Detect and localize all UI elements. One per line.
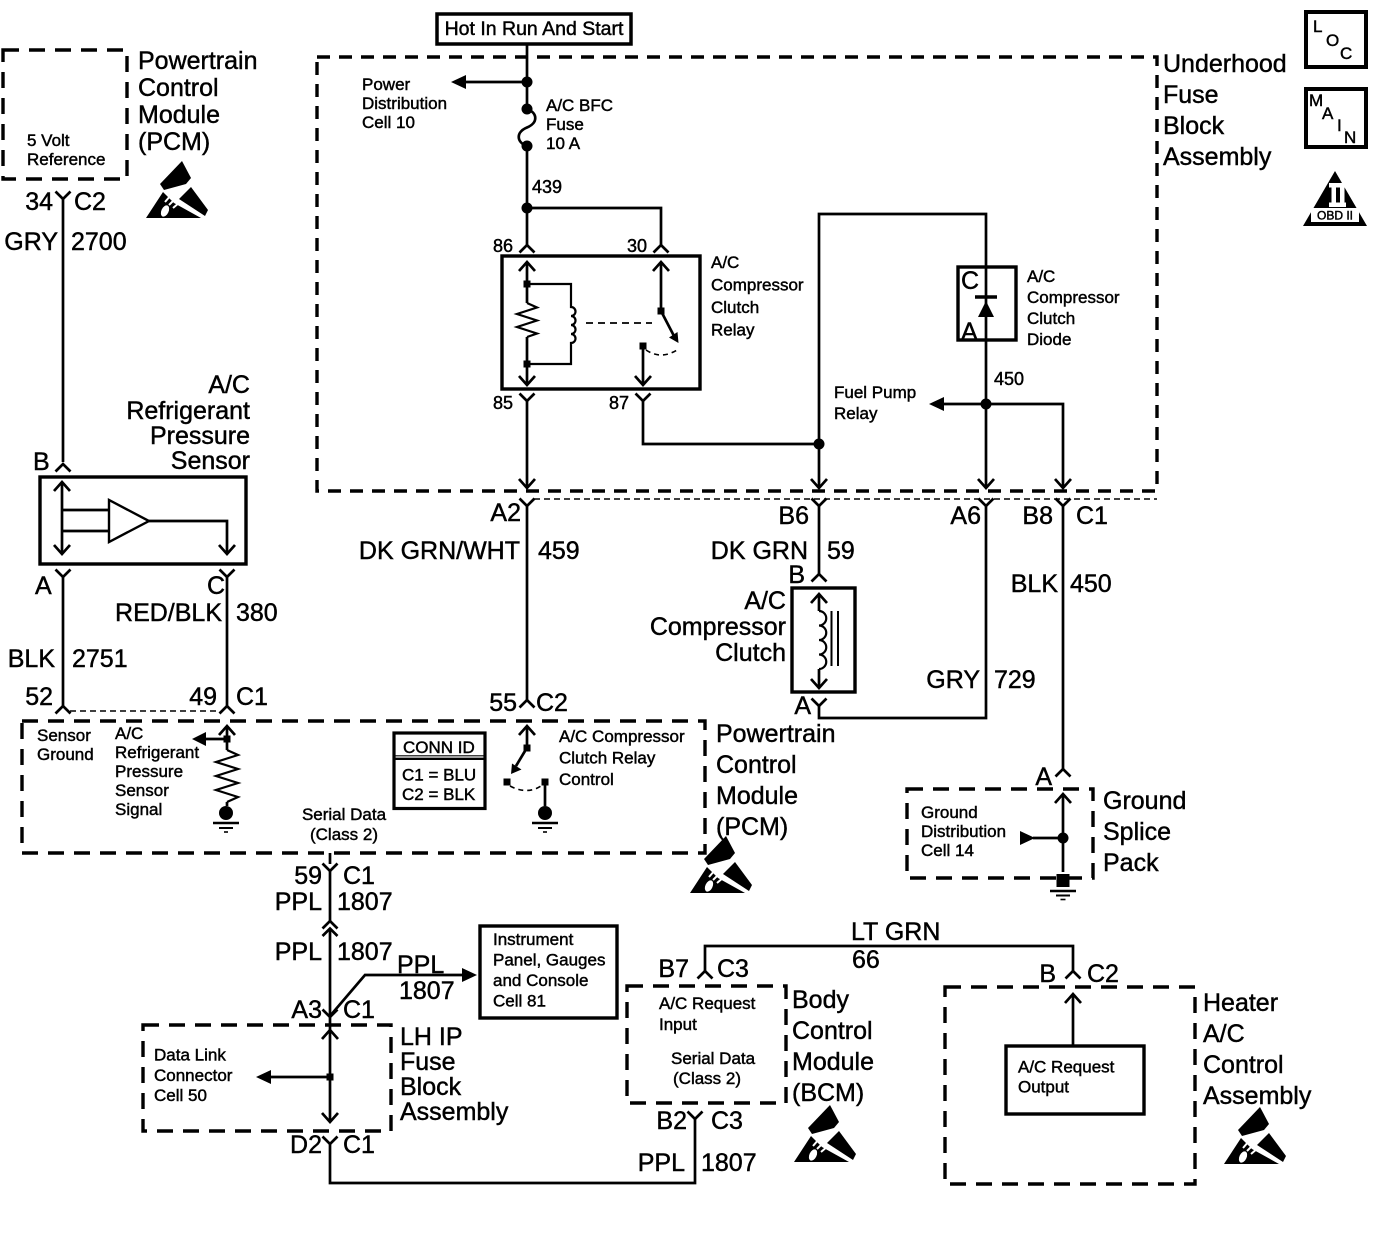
svg-text:Control: Control xyxy=(559,770,614,789)
wire arrow to Data Link Connector Cell 50 xyxy=(256,1070,330,1084)
svg-text:Compressor: Compressor xyxy=(650,613,786,641)
connector A3 C1 xyxy=(323,1010,338,1018)
svg-text:B2: B2 xyxy=(656,1107,687,1135)
svg-text:A/C: A/C xyxy=(1027,267,1055,286)
A/C Request Output box xyxy=(1006,1046,1144,1114)
svg-text:PPL: PPL xyxy=(638,1149,685,1177)
svg-text:Ground: Ground xyxy=(921,803,978,822)
svg-text:59: 59 xyxy=(827,537,855,565)
node splice junction xyxy=(1058,833,1069,844)
wire arrow to Fuel Pump Relay xyxy=(929,397,1063,488)
svg-text:A6: A6 xyxy=(950,502,981,530)
svg-text:729: 729 xyxy=(994,666,1036,694)
svg-text:59: 59 xyxy=(294,862,322,890)
wire 439 xyxy=(526,146,529,245)
relay K1 A/C compressor clutch relay box xyxy=(502,256,700,389)
PCM signal input arrow xyxy=(192,726,235,750)
svg-text:PPL: PPL xyxy=(397,951,444,979)
arrow at B8 exit xyxy=(1055,479,1071,488)
svg-text:Refrigerant: Refrigerant xyxy=(126,397,250,425)
svg-text:A/C Compressor: A/C Compressor xyxy=(559,727,685,746)
label Heater A/C Control Assembly xyxy=(1203,989,1312,1110)
svg-text:Powertrain: Powertrain xyxy=(138,47,258,75)
connector C1 thin dashed line under fuse block xyxy=(534,498,1157,500)
node fuel pump tap xyxy=(981,399,992,410)
svg-text:C1: C1 xyxy=(343,1131,375,1159)
connector B C2 heater xyxy=(1066,971,1081,979)
wire PPL 1807 upper xyxy=(329,871,332,921)
svg-text:B: B xyxy=(33,448,50,476)
label A/C BFC Fuse 10 A xyxy=(546,96,613,153)
label Powertrain Control Module (PCM) top xyxy=(138,47,258,156)
svg-text:(Class 2): (Class 2) xyxy=(310,825,378,844)
svg-text:Assembly: Assembly xyxy=(1163,143,1272,171)
svg-text:Fuse: Fuse xyxy=(400,1048,456,1076)
pin 30 connector xyxy=(654,245,669,253)
svg-text:Serial Data: Serial Data xyxy=(302,805,387,824)
svg-text:(Class 2): (Class 2) xyxy=(673,1069,741,1088)
pin 86 connector xyxy=(520,245,535,253)
node 87/B6 junction xyxy=(814,439,825,450)
clutch coil with arrows xyxy=(811,594,827,688)
label Ground Distribution Cell 14 xyxy=(921,803,1006,860)
svg-text:B: B xyxy=(1039,960,1056,988)
svg-text:A/C: A/C xyxy=(208,371,250,399)
svg-text:450: 450 xyxy=(1070,570,1112,598)
fuse A/C BFC 10A xyxy=(519,104,536,152)
svg-text:Ground: Ground xyxy=(37,745,94,764)
relay junction squares xyxy=(524,281,531,368)
svg-text:Control: Control xyxy=(1203,1051,1284,1079)
clutch core lines xyxy=(832,611,839,666)
wire LT GRN 66 xyxy=(705,946,1073,971)
sensor supply line with arrows xyxy=(54,482,109,554)
connector clutch pin A xyxy=(812,699,827,707)
svg-text:Clutch Relay: Clutch Relay xyxy=(559,749,656,768)
svg-text:C2 = BLK: C2 = BLK xyxy=(402,785,476,804)
svg-text:Assembly: Assembly xyxy=(400,1098,509,1126)
svg-text:RED/BLK: RED/BLK xyxy=(115,599,222,627)
svg-text:Heater: Heater xyxy=(1203,989,1278,1017)
svg-text:Cell 50: Cell 50 xyxy=(154,1086,207,1105)
label A/C Refrigerant Pressure Sensor xyxy=(126,371,250,475)
connector sensor pin C xyxy=(220,570,235,578)
LH IP Fuse Block Assembly dashed box xyxy=(143,1025,391,1131)
ESD symbol PCM top xyxy=(146,161,208,218)
relay switch arm xyxy=(661,311,679,343)
svg-text:Serial Data: Serial Data xyxy=(671,1049,756,1068)
svg-text:D2: D2 xyxy=(290,1131,322,1159)
svg-text:Module: Module xyxy=(792,1048,874,1076)
svg-text:1807: 1807 xyxy=(701,1149,757,1177)
svg-text:459: 459 xyxy=(538,537,580,565)
svg-text:C1 = BLU: C1 = BLU xyxy=(402,766,476,785)
LOC legend box xyxy=(1306,12,1366,67)
PCM clutch relay control driver switch xyxy=(504,726,549,806)
svg-text:Block: Block xyxy=(1163,112,1225,140)
wire PPL 1807 lower xyxy=(329,929,332,1018)
svg-text:Refrigerant: Refrigerant xyxy=(115,743,199,762)
svg-text:Clutch: Clutch xyxy=(1027,309,1075,328)
label A/C Compressor Clutch xyxy=(650,587,786,667)
ESD symbol BCM xyxy=(794,1105,856,1162)
svg-text:A: A xyxy=(1322,104,1334,123)
connector C1 thin dashed link xyxy=(70,710,219,712)
svg-text:1807: 1807 xyxy=(337,888,393,916)
svg-text:1807: 1807 xyxy=(399,977,455,1005)
svg-text:Connector: Connector xyxy=(154,1066,233,1085)
svg-text:A/C: A/C xyxy=(711,253,739,272)
svg-text:Relay: Relay xyxy=(711,321,755,340)
svg-text:10 A: 10 A xyxy=(546,134,581,153)
svg-text:Instrument: Instrument xyxy=(493,930,574,949)
svg-text:Cell 81: Cell 81 xyxy=(493,992,546,1011)
svg-text:49: 49 xyxy=(189,683,217,711)
svg-text:Body: Body xyxy=(792,986,849,1014)
connector splice pin A xyxy=(1056,769,1071,777)
connector B7 C3 xyxy=(698,971,713,979)
relay internal resistor xyxy=(517,303,537,337)
ground splice pack ground symbol xyxy=(1050,874,1076,900)
svg-text:Sensor: Sensor xyxy=(115,781,169,800)
svg-text:O: O xyxy=(1326,31,1339,50)
label A/C Request Input xyxy=(659,994,756,1034)
wire RED/BLK 380 xyxy=(226,577,229,706)
svg-text:A: A xyxy=(1035,763,1052,791)
svg-text:Module: Module xyxy=(716,782,798,810)
svg-text:Pack: Pack xyxy=(1103,849,1159,877)
svg-text:52: 52 xyxy=(25,683,53,711)
diode D1 A/C compressor clutch diode xyxy=(958,267,1016,346)
svg-text:C2: C2 xyxy=(74,188,106,216)
svg-text:Ground: Ground xyxy=(1103,787,1186,815)
svg-text:Diode: Diode xyxy=(1027,330,1071,349)
wire arrow from Ground Distribution Cell 14 xyxy=(1020,831,1063,845)
wire BLK 450 to ground splice xyxy=(1062,506,1065,769)
connector pin 59 C1 xyxy=(323,853,338,871)
svg-text:Fuse: Fuse xyxy=(1163,81,1219,109)
splice internal wire xyxy=(1055,794,1071,872)
Powertrain Control Module dashed box bottom xyxy=(22,721,705,853)
svg-text:A: A xyxy=(35,572,52,600)
wire arrow to Power Distribution Cell 10 xyxy=(451,75,527,89)
svg-text:Data Link: Data Link xyxy=(154,1046,226,1065)
connector B8 xyxy=(1056,499,1071,507)
svg-text:87: 87 xyxy=(609,393,629,413)
svg-text:Sensor: Sensor xyxy=(37,726,91,745)
svg-text:C1: C1 xyxy=(343,862,375,890)
svg-text:Compressor: Compressor xyxy=(1027,288,1120,307)
svg-text:OBD II: OBD II xyxy=(1317,209,1353,223)
svg-text:C3: C3 xyxy=(717,955,749,983)
svg-text:CONN ID: CONN ID xyxy=(403,738,475,757)
svg-text:(BCM): (BCM) xyxy=(792,1079,864,1107)
svg-text:C1: C1 xyxy=(343,996,375,1024)
svg-text:PPL: PPL xyxy=(275,888,322,916)
svg-text:N: N xyxy=(1344,128,1356,147)
wire from Hot In Run And Start down xyxy=(526,45,529,109)
svg-text:and Console: and Console xyxy=(493,971,588,990)
svg-text:B6: B6 xyxy=(778,502,809,530)
arrow at A6 exit xyxy=(978,479,994,488)
wire PPL 1807 bottom run xyxy=(330,1119,695,1183)
sensor B1 pressure sensor box xyxy=(40,477,246,564)
sensor op-amp triangle xyxy=(109,500,149,542)
svg-text:5 Volt: 5 Volt xyxy=(27,131,70,150)
svg-text:Relay: Relay xyxy=(834,404,878,423)
label Power Distribution Cell 10 xyxy=(362,75,447,132)
connector pin 55 xyxy=(520,700,535,708)
svg-text:Panel, Gauges: Panel, Gauges xyxy=(493,951,605,970)
MAIN legend box xyxy=(1306,89,1366,147)
svg-text:B8: B8 xyxy=(1022,502,1053,530)
svg-text:Distribution: Distribution xyxy=(921,822,1006,841)
connector A2 xyxy=(520,499,535,507)
label Body Control Module (BCM) xyxy=(792,986,874,1107)
Body Control Module dashed box xyxy=(627,986,786,1103)
wire DK GRN 59 to clutch xyxy=(818,506,821,574)
Underhood Fuse Block Assembly dashed box xyxy=(317,57,1157,491)
connector clutch pin B xyxy=(812,574,827,582)
svg-text:B: B xyxy=(788,561,805,589)
ESD symbol heater xyxy=(1224,1107,1286,1164)
svg-text:A/C: A/C xyxy=(115,724,143,743)
svg-text:Reference: Reference xyxy=(27,150,105,169)
relay coil-side pin line with arrows xyxy=(519,262,535,385)
svg-text:C: C xyxy=(1340,44,1352,63)
wire GRY 2700 xyxy=(62,199,65,462)
svg-text:(PCM): (PCM) xyxy=(138,128,210,156)
wire BLK 2751 xyxy=(62,577,65,706)
wire 87 to B6 junction xyxy=(643,401,819,444)
svg-text:C2: C2 xyxy=(536,689,568,717)
svg-text:Control: Control xyxy=(716,751,797,779)
svg-text:Output: Output xyxy=(1018,1078,1069,1097)
svg-text:Fuse: Fuse xyxy=(546,115,584,134)
svg-text:55: 55 xyxy=(489,689,517,717)
label Powertrain Control Module (PCM) right xyxy=(716,720,836,841)
OBD II symbol xyxy=(1303,171,1367,226)
label Data Link Connector Cell 50 xyxy=(154,1046,233,1106)
heater internal wire with arrow xyxy=(1065,994,1081,1046)
wire GRY 729 from A6 to clutch A xyxy=(819,506,986,718)
svg-text:C1: C1 xyxy=(1076,502,1108,530)
relay contact 87 xyxy=(635,343,677,386)
svg-text:A2: A2 xyxy=(490,499,521,527)
label Serial Data (Class 2) BCM xyxy=(671,1049,756,1088)
svg-text:2751: 2751 xyxy=(72,645,128,673)
label A/C Compressor Clutch Relay xyxy=(711,253,804,340)
svg-text:Block: Block xyxy=(400,1073,462,1101)
pin 85 connector xyxy=(520,394,535,402)
svg-text:A3: A3 xyxy=(291,996,322,1024)
label Sensor Ground xyxy=(37,726,94,764)
arrow at B6 exit xyxy=(811,479,827,488)
svg-text:Distribution: Distribution xyxy=(362,94,447,113)
svg-text:LT GRN: LT GRN xyxy=(851,918,940,946)
ground PCM sensor signal xyxy=(213,802,239,832)
svg-text:BLK: BLK xyxy=(8,645,56,673)
svg-text:DK GRN/WHT: DK GRN/WHT xyxy=(359,537,520,565)
relay actuation dashed link xyxy=(586,322,652,324)
svg-text:C: C xyxy=(207,572,225,600)
svg-text:66: 66 xyxy=(852,946,880,974)
svg-text:C3: C3 xyxy=(711,1107,743,1135)
label A/C Compressor Clutch Relay Control xyxy=(559,727,685,789)
svg-text:Hot In Run And Start: Hot In Run And Start xyxy=(445,18,624,40)
label Underhood Fuse Block Assembly xyxy=(1163,50,1287,171)
svg-text:Pressure: Pressure xyxy=(115,762,183,781)
svg-text:85: 85 xyxy=(493,393,513,413)
svg-text:Assembly: Assembly xyxy=(1203,1082,1312,1110)
svg-text:A/C Request: A/C Request xyxy=(659,994,756,1013)
svg-text:Signal: Signal xyxy=(115,800,162,819)
ground PCM driver xyxy=(532,806,558,832)
svg-text:Pressure: Pressure xyxy=(150,422,250,450)
arrow at A2 exit xyxy=(519,479,535,488)
svg-text:I: I xyxy=(1337,116,1342,135)
CONN ID table box xyxy=(394,733,485,809)
svg-text:2700: 2700 xyxy=(71,228,127,256)
connector A6 xyxy=(979,499,994,507)
wire 450 below diode xyxy=(985,340,988,488)
label Serial Data (Class 2) xyxy=(302,805,387,844)
in-line splice connector xyxy=(323,921,338,936)
svg-text:Cell 10: Cell 10 xyxy=(362,113,415,132)
svg-text:Control: Control xyxy=(792,1017,873,1045)
svg-text:C1: C1 xyxy=(236,683,268,711)
Heater A/C Control Assembly dashed box xyxy=(945,987,1195,1184)
svg-text:A: A xyxy=(961,318,978,346)
connector sensor pin B xyxy=(56,464,71,472)
label LH IP Fuse Block Assembly xyxy=(400,1023,509,1126)
svg-text:Power: Power xyxy=(362,75,411,94)
svg-text:Module: Module xyxy=(138,101,220,129)
svg-text:LH IP: LH IP xyxy=(400,1023,463,1051)
svg-text:A: A xyxy=(794,692,811,720)
svg-text:380: 380 xyxy=(236,599,278,627)
svg-text:1807: 1807 xyxy=(337,938,393,966)
svg-text:(PCM): (PCM) xyxy=(716,813,788,841)
Hot In Run And Start feed box xyxy=(437,14,631,44)
svg-text:B7: B7 xyxy=(658,955,689,983)
svg-text:C2: C2 xyxy=(1087,960,1119,988)
relay coil xyxy=(527,284,576,364)
svg-text:PPL: PPL xyxy=(275,938,322,966)
svg-text:Control: Control xyxy=(138,74,219,102)
pin 87 connector xyxy=(636,394,651,402)
svg-text:439: 439 xyxy=(532,177,562,197)
relay switch pin 30 line xyxy=(653,262,669,315)
svg-text:Powertrain: Powertrain xyxy=(716,720,836,748)
wire branch to relay pin 30 xyxy=(527,208,661,245)
label A/C Compressor Clutch Diode xyxy=(1027,267,1120,349)
Instrument Panel Gauges and Console box xyxy=(480,926,617,1018)
svg-text:A/C: A/C xyxy=(1203,1020,1245,1048)
connector B6 xyxy=(812,499,827,507)
Powertrain Control Module 5 Volt Reference dashed box xyxy=(3,50,127,179)
svg-text:A/C: A/C xyxy=(744,587,786,615)
wire branch to Instrument Panel cell 81 xyxy=(330,968,477,1016)
clutch L1 A/C compressor clutch box xyxy=(792,588,855,692)
svg-text:Input: Input xyxy=(659,1015,697,1034)
connector pin 34 C2 xyxy=(56,192,71,200)
label A/C Refrigerant Pressure Sensor Signal xyxy=(115,724,199,819)
connector sensor pin A xyxy=(56,570,71,578)
svg-text:Splice: Splice xyxy=(1103,818,1171,846)
PCM pull resistor xyxy=(216,750,238,802)
svg-text:86: 86 xyxy=(493,236,513,256)
svg-text:Clutch: Clutch xyxy=(715,639,786,667)
connector D2 C1 xyxy=(323,1137,338,1145)
node power distribution tap xyxy=(522,77,533,88)
ESD symbol PCM right xyxy=(690,836,752,893)
sensor output line xyxy=(149,521,235,554)
connector B2 C3 xyxy=(688,1112,703,1120)
label 5 Volt Reference xyxy=(27,131,105,169)
Ground Splice Pack dashed box xyxy=(907,789,1093,878)
svg-text:Sensor: Sensor xyxy=(171,447,250,475)
svg-text:30: 30 xyxy=(627,236,647,256)
svg-text:Underhood: Underhood xyxy=(1163,50,1287,78)
wire 85 to A2 xyxy=(526,401,529,488)
svg-text:Fuel Pump: Fuel Pump xyxy=(834,383,916,402)
svg-text:GRY: GRY xyxy=(926,666,980,694)
connector pin 52 xyxy=(56,706,71,714)
svg-text:BLK: BLK xyxy=(1011,570,1059,598)
wire DK GRN/WHT 459 xyxy=(526,506,529,700)
svg-text:Clutch: Clutch xyxy=(711,298,759,317)
svg-text:A/C BFC: A/C BFC xyxy=(546,96,613,115)
label Fuel Pump Relay xyxy=(834,383,916,423)
label Ground Splice Pack xyxy=(1103,787,1186,877)
svg-text:450: 450 xyxy=(994,369,1024,389)
wire B6 riser and diode feed xyxy=(819,214,986,488)
svg-text:L: L xyxy=(1313,17,1322,36)
connector pin 49 xyxy=(220,706,235,714)
svg-text:Cell 14: Cell 14 xyxy=(921,841,974,860)
svg-text:Compressor: Compressor xyxy=(711,276,804,295)
svg-text:C: C xyxy=(961,267,979,295)
svg-text:GRY: GRY xyxy=(4,228,58,256)
node 439 branch xyxy=(522,203,533,214)
LH IP internal wire with arrows xyxy=(322,1017,338,1122)
svg-text:A/C Request: A/C Request xyxy=(1018,1058,1115,1077)
svg-text:34: 34 xyxy=(25,188,53,216)
